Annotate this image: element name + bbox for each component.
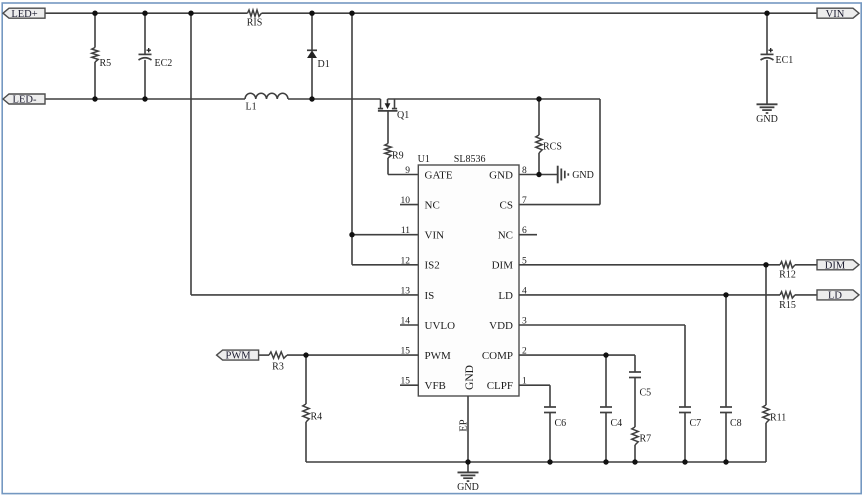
- svg-text:IS: IS: [425, 290, 435, 302]
- svg-text:NC: NC: [425, 200, 440, 212]
- svg-text:DIM: DIM: [492, 260, 514, 272]
- svg-text:C5: C5: [640, 388, 652, 399]
- svg-text:EC2: EC2: [155, 58, 173, 69]
- svg-text:R11: R11: [770, 413, 786, 424]
- svg-text:C6: C6: [555, 418, 567, 429]
- svg-text:R7: R7: [640, 434, 652, 445]
- svg-text:R12: R12: [779, 270, 796, 281]
- svg-text:U1: U1: [418, 154, 430, 165]
- svg-text:RIS: RIS: [247, 18, 263, 29]
- svg-text:DIM: DIM: [825, 260, 846, 271]
- svg-text:VIN: VIN: [826, 9, 845, 20]
- svg-text:D1: D1: [318, 59, 330, 70]
- svg-text:VDD: VDD: [489, 320, 513, 332]
- svg-text:8: 8: [522, 166, 527, 176]
- svg-text:LD: LD: [828, 291, 842, 302]
- svg-text:IS2: IS2: [425, 260, 440, 272]
- svg-text:CS: CS: [500, 200, 513, 212]
- svg-text:GND: GND: [489, 169, 513, 181]
- svg-text:VFB: VFB: [425, 380, 446, 392]
- svg-text:R15: R15: [779, 300, 796, 311]
- svg-text:GND: GND: [756, 114, 778, 125]
- svg-text:GND: GND: [572, 170, 594, 181]
- svg-text:NC: NC: [498, 230, 513, 242]
- svg-text:VIN: VIN: [425, 230, 445, 242]
- svg-text:12: 12: [401, 256, 411, 266]
- svg-text:L1: L1: [246, 102, 257, 113]
- svg-text:11: 11: [401, 226, 410, 236]
- svg-text:Q1: Q1: [397, 110, 409, 121]
- svg-text:C4: C4: [611, 418, 623, 429]
- svg-text:9: 9: [405, 166, 410, 176]
- svg-text:R9: R9: [392, 151, 404, 162]
- svg-text:UVLO: UVLO: [425, 320, 456, 332]
- svg-text:LED+: LED+: [11, 9, 37, 20]
- svg-text:GND: GND: [457, 482, 479, 493]
- svg-text:13: 13: [401, 286, 411, 296]
- svg-text:C7: C7: [690, 418, 702, 429]
- svg-text:PWM: PWM: [226, 351, 252, 362]
- svg-text:PWM: PWM: [425, 350, 452, 362]
- svg-text:SL8536: SL8536: [454, 154, 486, 165]
- svg-text:COMP: COMP: [482, 350, 513, 362]
- svg-text:R5: R5: [100, 58, 112, 69]
- svg-text:GATE: GATE: [425, 169, 453, 181]
- svg-text:EC1: EC1: [776, 55, 794, 66]
- svg-text:GND: GND: [464, 365, 476, 390]
- svg-text:R4: R4: [311, 412, 323, 423]
- svg-text:RCS: RCS: [543, 142, 562, 153]
- svg-text:R3: R3: [272, 362, 284, 373]
- svg-text:C8: C8: [730, 418, 742, 429]
- svg-text:7: 7: [522, 196, 527, 206]
- svg-text:LED-: LED-: [13, 95, 37, 106]
- svg-text:CLPF: CLPF: [487, 380, 513, 392]
- svg-text:LD: LD: [498, 290, 513, 302]
